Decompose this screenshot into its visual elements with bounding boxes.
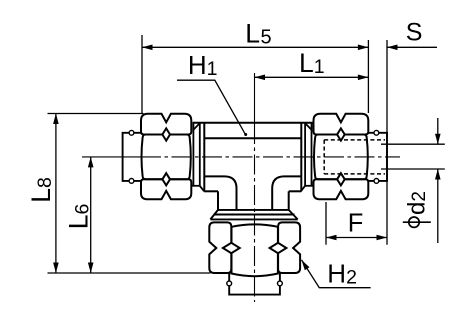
dimension L1 bbox=[255, 76, 369, 78]
tee body bbox=[193, 123, 313, 210]
extension line nut end bbox=[367, 40, 369, 113]
dimension L6 bbox=[90, 157, 92, 273]
bottom release collar bbox=[227, 274, 282, 295]
dimension F bbox=[326, 202, 387, 245]
bottom extension line bbox=[48, 272, 211, 274]
branch flange bbox=[210, 210, 297, 220]
left release collar bbox=[123, 130, 141, 183]
right release collar bbox=[368, 130, 387, 183]
right washer junction bbox=[301, 123, 314, 192]
leader H1 bbox=[177, 80, 246, 135]
right nut bbox=[314, 114, 369, 200]
left washer junction bbox=[192, 123, 205, 192]
bottom nut bbox=[209, 222, 300, 276]
horizontal centerline bbox=[82, 156, 400, 158]
svg-text:S: S bbox=[406, 19, 423, 47]
dimension S bbox=[387, 46, 437, 48]
dimension L8 bbox=[48, 114, 144, 274]
hidden tube lines (dashed) bbox=[324, 140, 385, 174]
leader H2 bbox=[302, 260, 371, 288]
branch vertical centerline bbox=[254, 73, 256, 302]
svg-text:F: F bbox=[348, 210, 364, 238]
left nut bbox=[141, 114, 191, 200]
dimension L5 bbox=[142, 35, 368, 113]
extension line collar end bbox=[386, 40, 388, 245]
dimension phi d2 bbox=[381, 118, 445, 243]
